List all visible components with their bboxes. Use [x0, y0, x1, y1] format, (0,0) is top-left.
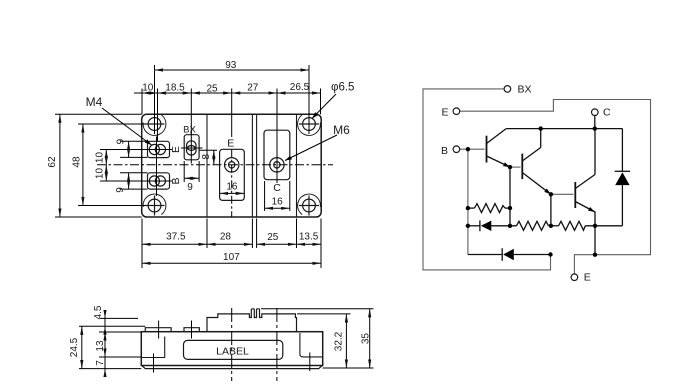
svg-text:16: 16	[226, 182, 238, 193]
terminal C	[592, 109, 599, 116]
svg-text:C: C	[273, 182, 281, 194]
section divider lines	[207, 114, 297, 217]
E/B terminal block	[145, 328, 171, 332]
svg-text:9: 9	[115, 187, 126, 193]
svg-text:C: C	[603, 107, 611, 119]
side dims left	[69, 305, 145, 377]
LABEL plate	[184, 340, 283, 359]
svg-text:φ6.5: φ6.5	[331, 82, 354, 94]
svg-text:25: 25	[206, 84, 218, 95]
svg-text:24.5: 24.5	[69, 337, 80, 357]
BX aux terminal pad	[184, 135, 199, 160]
dimension 9 (BX pad width)	[184, 161, 199, 193]
transistor Q3	[575, 129, 595, 212]
transistor Q2	[522, 129, 551, 195]
raised center part with barrier ridges	[207, 309, 297, 332]
svg-text:9: 9	[116, 138, 127, 144]
C main screw pad	[264, 130, 290, 180]
side view centerlines	[154, 308, 310, 381]
wire Q3 base node vertical	[550, 194, 552, 226]
dimension 48	[72, 124, 147, 206]
svg-text:27: 27	[247, 83, 259, 94]
svg-text:B: B	[170, 177, 182, 184]
dimension 16 (E pad)	[220, 182, 245, 194]
svg-text:M6: M6	[333, 123, 350, 137]
mounting hole top-left	[145, 118, 320, 216]
resistor R2	[516, 221, 548, 230]
svg-text:M4: M4	[86, 95, 103, 109]
right foot	[300, 333, 323, 357]
svg-text:37.5: 37.5	[166, 232, 186, 243]
wire Q1 node vertical	[509, 167, 511, 226]
wire emitter vertical	[594, 212, 596, 255]
wire B feed	[460, 149, 485, 254]
terminal B	[453, 146, 460, 153]
svg-text:25: 25	[267, 232, 279, 243]
label phi6.5 + leader	[312, 82, 354, 119]
svg-text:4.5: 4.5	[93, 305, 104, 319]
module outline	[142, 114, 322, 217]
svg-text:E: E	[170, 146, 182, 153]
svg-text:E: E	[584, 272, 591, 284]
svg-text:10: 10	[95, 152, 106, 164]
diode D3 freewheel	[615, 129, 630, 226]
E aux terminal pad	[148, 141, 170, 157]
svg-text:E: E	[227, 138, 234, 150]
label M6 + leader	[285, 123, 350, 161]
svg-text:28: 28	[220, 232, 232, 243]
dimension 107	[142, 252, 321, 263]
svg-text:10: 10	[142, 83, 154, 94]
BX terminal block	[184, 328, 199, 332]
left foot	[141, 337, 164, 358]
svg-text:B: B	[441, 145, 448, 157]
resistor R3	[559, 221, 586, 230]
dimension row 10/18.5/25/27/26.5	[134, 82, 321, 95]
wire BX net border	[423, 89, 551, 270]
body outline	[141, 332, 322, 366]
dimension 93	[155, 60, 310, 71]
svg-text:26.5: 26.5	[290, 82, 310, 93]
dimension 62	[47, 114, 142, 217]
svg-text:62: 62	[47, 156, 58, 168]
svg-text:13.5: 13.5	[299, 232, 319, 243]
svg-text:18.5: 18.5	[165, 83, 185, 94]
svg-text:9: 9	[187, 182, 193, 193]
junction dots	[466, 126, 598, 256]
mounting hole bottom-left	[148, 199, 161, 212]
dimension 8 (BX to centerline)	[199, 150, 217, 165]
mounting hole top-right	[303, 118, 316, 131]
label M4 + leader	[86, 95, 152, 145]
terminal BX	[504, 86, 511, 93]
side dims right 32.2 / 35	[261, 309, 374, 368]
horizontal centerline	[97, 164, 333, 166]
svg-text:BX: BX	[183, 125, 196, 136]
svg-text:7: 7	[95, 360, 106, 366]
wire Q2 base link	[510, 166, 521, 168]
svg-text:32.2: 32.2	[333, 331, 344, 351]
wire base rail	[468, 225, 623, 227]
svg-text:8: 8	[201, 153, 212, 159]
diode D2	[502, 248, 514, 261]
wire Q3 base link	[551, 193, 574, 195]
terminal E main	[571, 274, 578, 281]
bottom dimension row 37.5/28/25/13.5	[142, 219, 321, 269]
terminal E aux	[453, 108, 460, 115]
resistor R1	[468, 204, 510, 213]
svg-text:35: 35	[360, 333, 371, 345]
baseplate	[143, 366, 322, 369]
transistor Q1	[487, 129, 511, 168]
dimensions 9/10/10/9 left	[95, 138, 148, 192]
terminal crosshair lines	[145, 130, 278, 217]
svg-text:13: 13	[95, 340, 106, 352]
wire C stub	[594, 116, 596, 129]
svg-text:93: 93	[225, 60, 237, 71]
svg-text:48: 48	[72, 156, 83, 168]
wire E aux net wrap	[460, 100, 651, 274]
svg-text:LABEL: LABEL	[216, 346, 249, 358]
diode D1	[480, 220, 491, 231]
wire D3 branch	[468, 254, 551, 256]
wire collector rail	[506, 128, 622, 130]
dimension 16 (C pad)	[265, 181, 290, 211]
svg-text:107: 107	[223, 252, 240, 263]
svg-text:10: 10	[95, 168, 106, 180]
B aux terminal pad	[148, 173, 170, 189]
svg-text:BX: BX	[518, 84, 532, 96]
svg-text:16: 16	[272, 197, 284, 208]
extension lines columns	[142, 65, 321, 141]
mounting hole bottom-right	[303, 199, 316, 212]
corner recesses	[143, 115, 320, 215]
E main screw pad	[220, 149, 245, 200]
svg-text:E: E	[441, 107, 448, 119]
